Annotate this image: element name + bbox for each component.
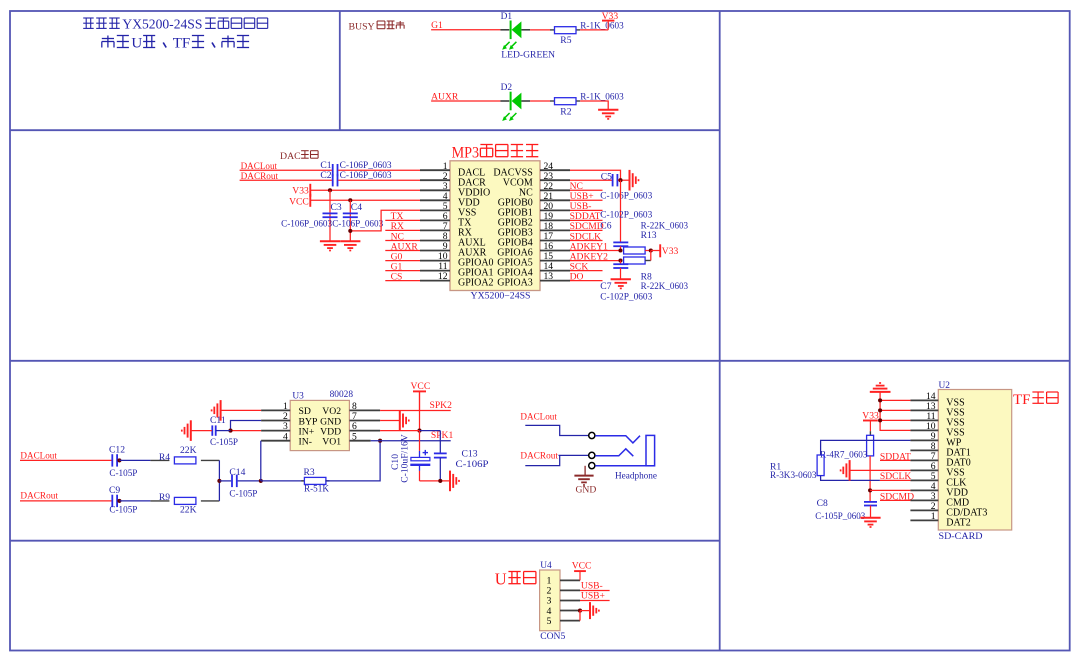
svg-text:C-105P: C-105P [210, 437, 238, 448]
junction USB pin4/pin5 ground [578, 609, 582, 613]
U1 pin 19 (GPIOB2) [498, 211, 570, 229]
resistor R9 [150, 492, 219, 515]
U1 pin 24 (DACVSS) [493, 161, 570, 179]
wire C3 to ground [329, 219, 331, 241]
wire GND pin7 to ground [380, 420, 400, 422]
svg-text:C-105P_0603: C-105P_0603 [815, 511, 865, 522]
ground (TF top, inverted) [870, 383, 891, 392]
capacitor C12 [109, 445, 137, 480]
capacitor C1 [320, 160, 391, 176]
wire R1 top to WP pin9 [821, 440, 911, 455]
U1 pin 9 (AUXR) [420, 241, 487, 259]
net label USB- (U1 pin 20) [570, 201, 603, 212]
divider vertical x=720 [719, 11, 721, 651]
ground (amp output, rotated right) [450, 471, 459, 492]
ground (C11, rotated left) [182, 420, 191, 441]
wire DACLout to C12 [20, 459, 112, 461]
svg-text:1: 1 [931, 511, 936, 522]
svg-text:C11: C11 [210, 415, 226, 426]
svg-text:12: 12 [438, 271, 448, 282]
wire VCOM pin23 to C5 [570, 179, 612, 181]
svg-text:R-22K_0603: R-22K_0603 [641, 220, 689, 231]
wire DACRout to C2 [240, 179, 332, 181]
wire bottom rail to ground [420, 480, 451, 482]
svg-text:DAT2: DAT2 [946, 518, 970, 529]
U1 pin 15 (GPIOA5) [497, 251, 570, 269]
net label G1 (U1 pin 11) [385, 261, 420, 272]
junction VDD/VCC [417, 429, 421, 433]
svg-text:C-105P: C-105P [229, 488, 257, 499]
wire VCC branch to C4 [349, 200, 351, 219]
svg-text:R-22K_0603: R-22K_0603 [641, 281, 689, 292]
resistor R-4R7 (TF VDD series) [820, 435, 874, 460]
wire D2 to R2 [530, 100, 550, 102]
U1 pin 5 (VSS) [420, 201, 476, 219]
svg-text:SPK1: SPK1 [431, 430, 454, 441]
net label DACRout (amp) [20, 491, 58, 502]
net label DACRout (headphone) [520, 451, 558, 462]
U2 pin 10 (VSS) [910, 421, 964, 439]
svg-text:R-51K: R-51K [304, 483, 329, 494]
wire DACVSS pin24 to C5 node [570, 170, 621, 180]
wire C9 to R9 [119, 500, 150, 502]
svg-text:C-106P_0603: C-106P_0603 [332, 219, 383, 230]
wire pin4 to ground [580, 610, 590, 612]
U2 pin 11 (VSS) [910, 411, 964, 429]
ground (U3 GND, rotated right) [400, 410, 409, 431]
svg-text:C-105P: C-105P [109, 505, 137, 516]
capacitor C4 [343, 202, 362, 217]
svg-text:SPK2: SPK2 [430, 400, 453, 411]
junction C12 out [117, 458, 121, 462]
wire C13 branch down [439, 431, 441, 453]
junction VSS pin14 [878, 398, 882, 402]
wire ADKEY2 down to C7 [620, 261, 622, 265]
net label DACLout (amp) [20, 451, 57, 462]
wire VCC to pin4 [310, 199, 420, 201]
ground (TF VSS pin6, rotated left) [841, 460, 850, 481]
wire C12 to R4 [119, 459, 150, 461]
junction VDD pin4/C8 [868, 488, 872, 492]
svg-text:R4: R4 [159, 452, 170, 463]
net label SPK1 [431, 430, 454, 441]
wire DACLout to C1 [240, 169, 332, 171]
ground (U3 SD pin, rotated left) [212, 400, 221, 421]
U4 pin 1 [547, 576, 580, 587]
U1 pin 14 (GPIOA4) [497, 261, 570, 279]
U1 pin 1 (DACL) [420, 161, 485, 179]
divider horizontal y=130 [10, 129, 720, 131]
net label SPK2 [430, 400, 453, 411]
power port VCC (USB) [572, 561, 592, 581]
wire C13 to bottom rail [439, 458, 441, 481]
wire VO1 to SPK1 [371, 440, 451, 442]
wire sleeve to GND [584, 466, 586, 476]
net label G0 (U1 pin 10) [385, 251, 420, 262]
svg-text:GPIOA3: GPIOA3 [497, 278, 533, 289]
net label AUXR (U1 pin 9) [385, 241, 420, 252]
svg-text:GND: GND [576, 484, 597, 495]
U3 pin 2 (BYP) [261, 411, 317, 427]
U2 pin 3 (CMD) [910, 491, 969, 509]
wire ground bus to VSS pins [880, 392, 910, 431]
U3 pin 1 (SD) [261, 401, 311, 417]
capacitor C6 [600, 210, 652, 247]
svg-text:MP3: MP3 [452, 145, 480, 162]
svg-text:DACRout: DACRout [20, 491, 58, 502]
U2 pin 1 (DAT2) [910, 511, 970, 529]
svg-text:C14: C14 [229, 467, 245, 478]
svg-text:SD-CARD: SD-CARD [939, 531, 983, 542]
net label SDDAT (U1 pin 19) [570, 211, 603, 222]
wire R9 to summing node [218, 481, 220, 501]
svg-text:IN-: IN- [299, 437, 312, 448]
junction VCC/C4 [348, 198, 352, 202]
U4 pin 4 [547, 606, 580, 617]
resistor R5 [550, 20, 624, 46]
capacitor C13 [434, 449, 489, 470]
wire VO2 to SPK2 [380, 410, 451, 412]
U2 pin 5 (CLK) [910, 471, 967, 489]
svg-text:YX5200-24SS: YX5200-24SS [122, 16, 202, 31]
ground (C7) [611, 279, 631, 288]
svg-text:VCC: VCC [572, 561, 592, 572]
svg-text:R13: R13 [641, 230, 657, 241]
net label G1 [431, 20, 443, 31]
headphone jack J1 contacts and body [595, 435, 654, 465]
svg-text:VCC: VCC [289, 196, 309, 207]
svg-text:C-10uF/16V: C-10uF/16V [400, 434, 411, 483]
ground (USB, rotated right) [590, 602, 599, 619]
svg-text:V33: V33 [602, 11, 619, 22]
net label SDCLK (U1 pin 17) [570, 231, 603, 242]
junction C5/DACVSS [618, 178, 622, 182]
wire junction to V33 bar [651, 250, 660, 252]
wire C11 to ground [191, 430, 212, 432]
wire C4 to ground [349, 219, 351, 241]
power port V33 (BUSY) [602, 11, 619, 30]
jack pin circle sleeve [589, 463, 595, 469]
wire V33 branch to C3 [329, 190, 331, 219]
svg-text:C9: C9 [109, 485, 120, 496]
label DAC output (DAC shu-chu) [280, 151, 318, 162]
jack pin circle ring [589, 452, 595, 458]
svg-text:5: 5 [547, 616, 552, 627]
net label NC (U1 pin 22) [570, 181, 603, 192]
power port V33 (ADKEY) [660, 244, 678, 257]
svg-text:C3: C3 [331, 202, 342, 213]
U1 pin 22 (NC) [519, 181, 570, 199]
U1 pin 11 (GPIOA1) [420, 261, 494, 279]
svg-text:D2: D2 [501, 83, 513, 93]
svg-text:C-106P_0603: C-106P_0603 [340, 170, 392, 181]
ground (C4) [340, 241, 360, 250]
IC U3 8002 amplifier body [290, 390, 353, 450]
net label DACRout (U1) [241, 171, 279, 182]
title line 2: zhi-chi U-pan TF-ka chuan-kou [102, 36, 249, 52]
section title TF ka-zuo (TF socket) [1013, 392, 1058, 408]
svg-text:R9: R9 [159, 492, 170, 503]
U1 pin 4 (VDD) [420, 191, 480, 209]
net label USB- (USB) [580, 580, 610, 591]
ground GND (headphone) [574, 476, 596, 496]
U1 pin 21 (GPIOB0) [498, 191, 570, 209]
ground (C3) [320, 241, 340, 250]
U1 pin 20 (GPIOB1) [498, 201, 570, 219]
U2 pin 2 (CD/DAT3) [910, 501, 987, 519]
net label SDCMD (TF) [880, 491, 914, 502]
capacitor C14 [229, 467, 257, 499]
resistor R13 [624, 220, 689, 254]
svg-text:U4: U4 [540, 561, 552, 571]
svg-text:22K: 22K [180, 445, 197, 456]
wire R13 to V33 node [645, 250, 651, 252]
wire VDD node to C13 branch [420, 430, 441, 432]
capacitor C10 electrolytic [390, 434, 430, 483]
net label TX (U1 pin 6) [385, 211, 420, 222]
capacitor C2 [320, 170, 391, 186]
U3 pin 3 (IN+) [261, 421, 314, 437]
svg-text:Headphone: Headphone [615, 470, 658, 481]
svg-text:R-4R7_0603: R-4R7_0603 [820, 449, 868, 460]
svg-text:R3: R3 [304, 467, 315, 478]
wire VCC node down to C10 [419, 431, 421, 451]
wire C10 to bottom rail [419, 471, 421, 481]
wire DACRout to jack ring [525, 455, 588, 465]
capacitor C11 [210, 415, 238, 448]
U1 pin 7 (RX) [420, 221, 473, 239]
svg-text:DAC: DAC [280, 151, 301, 162]
net label DO (U1 pin 13) [570, 271, 603, 282]
connector U2 SD-CARD body [938, 381, 1011, 542]
U1 pin 10 (GPIOA0) [420, 251, 494, 269]
wire node to C14 [219, 480, 231, 482]
ground (C5, rotated) [630, 170, 639, 191]
svg-text:C-106P: C-106P [456, 459, 489, 470]
LED D2 [500, 83, 530, 121]
wire BYP pin2 to C11 node [231, 421, 262, 431]
resistor R4 [150, 445, 219, 464]
U1 pin 2 (DACR) [420, 171, 486, 189]
junction ADKEY2/C7 [618, 258, 622, 262]
wire ground to SD pin1 [221, 409, 262, 411]
resistor R8 [624, 257, 689, 292]
connector U4 CON5 body [540, 561, 566, 642]
U1 pin 3 (VDDIO) [420, 181, 490, 199]
U3 pin 4 (IN-) [261, 431, 312, 447]
wire C5 to junction [618, 179, 630, 181]
svg-text:R-3K3-0603: R-3K3-0603 [770, 470, 817, 481]
wire DACRout to C9 [20, 500, 112, 502]
junction VO1/R3 [378, 439, 382, 443]
svg-text:BUSY: BUSY [349, 21, 375, 32]
wire C1 to pin1 [338, 169, 420, 171]
U1 pin 23 (VCOM) [503, 171, 570, 189]
svg-text:C-106P_0603: C-106P_0603 [281, 219, 332, 230]
U2 pin 6 (VSS) [910, 461, 964, 479]
svg-text:CON5: CON5 [540, 631, 565, 642]
svg-text:DACRout: DACRout [520, 451, 558, 462]
svg-text:YX5200−24SS: YX5200−24SS [471, 290, 531, 301]
resistor R2 [550, 91, 624, 117]
wire C5 node down to C6 [620, 180, 622, 242]
svg-text:LED-GREEN: LED-GREEN [501, 49, 555, 60]
wire R3 to VO1 feedback [325, 441, 380, 481]
wire R2 to ground [580, 101, 608, 110]
junction VSS/C4 ground [348, 229, 352, 233]
label Headphone [615, 470, 658, 481]
U1 pin 6 (TX) [420, 211, 472, 229]
net label SDCMD (U1 pin 18) [570, 221, 604, 232]
svg-text:V33: V33 [662, 246, 679, 257]
svg-text:C8: C8 [817, 498, 828, 509]
U1 pin 13 (GPIOA3) [497, 271, 570, 289]
U1 pin 8 (AUXL) [420, 231, 486, 249]
power port VCC (U1 VDD) [289, 194, 310, 208]
wire R4 to summing node [218, 460, 220, 481]
label LED-GREEN [501, 49, 555, 60]
svg-text:R2: R2 [560, 106, 571, 117]
U2 pin 9 (WP) [910, 431, 961, 449]
svg-text:C7: C7 [600, 281, 611, 292]
wire C2 to pin2 [338, 179, 420, 181]
capacitor C8 [815, 498, 877, 522]
ground (C8) [860, 518, 880, 527]
net label AUXR [431, 92, 459, 103]
wire VDD to VCC line [380, 430, 419, 432]
LED D1 [500, 12, 530, 50]
net label DACLout (headphone) [520, 411, 557, 422]
net label USB+ (USB) [580, 590, 610, 601]
wire AUXR to D2 [431, 100, 500, 102]
junction BYP/IN+/C11 [228, 429, 232, 433]
svg-text:U3: U3 [292, 391, 304, 401]
wire G1 to D1 [431, 29, 500, 31]
section title U-pan-zuo (USB socket) [495, 570, 536, 589]
U2 pin 4 (VDD) [910, 481, 968, 499]
net label RX (U1 pin 7) [385, 221, 420, 232]
value label C-106P_0603 (C4) [332, 219, 383, 230]
wire IN- node up to pin4 [260, 441, 262, 481]
U2 pin 14 (VSS) [910, 391, 964, 409]
capacitor C5 [600, 171, 652, 201]
wire DACLout to jack tip [525, 425, 588, 435]
U4 pin 5 [547, 616, 580, 627]
svg-text:4: 4 [283, 431, 288, 442]
svg-text:C2: C2 [320, 170, 331, 181]
label BUSY indicator (BUSY zhi-shi-deng) [349, 21, 405, 32]
svg-text:VO1: VO1 [322, 437, 341, 448]
junction VSS pin13 [878, 408, 882, 412]
net label CS (U1 pin 12) [385, 271, 420, 282]
svg-text:U: U [495, 570, 507, 589]
wire VDD node to pin4 [870, 489, 910, 491]
jack pin circle tip [589, 432, 595, 438]
power port V33 (TF) [862, 411, 879, 436]
net label SDCLK (TF) [880, 471, 912, 482]
power port V33 (U1 VDDIO) [292, 184, 310, 197]
U1 pin 16 (GPIOA6) [497, 241, 570, 259]
U3 pin 5 (VO1) [322, 431, 370, 447]
svg-text:DACLout: DACLout [520, 411, 557, 422]
net label ADKEY1 (U1 pin 16) [570, 241, 621, 252]
capacitor C3 [323, 202, 342, 217]
wire 4R7 to VDD node [869, 456, 871, 502]
svg-text:U: U [131, 36, 142, 52]
divider vertical title box x=340 [339, 11, 341, 130]
power port VCC (amp) [411, 381, 431, 410]
svg-text:C-106P_0603: C-106P_0603 [600, 190, 652, 201]
junction R13/R8/V33 [649, 248, 653, 252]
net label NC (U1 pin 8) [385, 231, 420, 242]
U2 pin 7 (DAT0) [910, 451, 970, 469]
wire pin5 to pin4 [579, 611, 581, 621]
U3 pin 8 (VO2) [322, 401, 380, 417]
capacitor C9 [109, 485, 137, 516]
U1 pin 12 (GPIOA2) [420, 271, 494, 289]
U2 pin 8 (DAT1) [910, 441, 970, 459]
wire R5 to V33 [580, 29, 608, 31]
net label ADKEY2 (U1 pin 15) [570, 251, 621, 262]
svg-text:U2: U2 [939, 381, 951, 391]
wire VSS pin5 to ground net [350, 210, 420, 231]
junction VSS pin11 [878, 418, 882, 422]
wire IN+ pin3 to C11 node [231, 430, 262, 432]
svg-text:C4: C4 [351, 202, 362, 213]
wire C8 to ground [870, 506, 872, 518]
value label C-106P_0603 (C3) [281, 219, 332, 230]
U4 pin 3 [547, 596, 580, 607]
svg-text:GPIOA2: GPIOA2 [458, 278, 494, 289]
svg-text:D1: D1 [501, 12, 513, 22]
U1 pin 18 (GPIOB3) [498, 221, 570, 239]
resistor R1 [770, 455, 824, 481]
wire C11 to BYP/IN+ node [216, 430, 231, 432]
wire R8 right to V33 node [645, 251, 651, 261]
section title MP3 main chip (MP3 zhu-kong-xin-pian) [452, 145, 539, 162]
svg-text:C-105P: C-105P [109, 468, 137, 479]
U2 pin 13 (VSS) [910, 401, 964, 419]
wire VCC down to VDD pin6 [419, 391, 421, 430]
svg-text:TF: TF [173, 36, 191, 52]
junction summing node [217, 479, 221, 483]
svg-text:TF: TF [1013, 392, 1031, 408]
svg-text:C-102P_0603: C-102P_0603 [600, 292, 652, 303]
svg-text:USB+: USB+ [581, 590, 605, 601]
wire C7 to ground [620, 268, 622, 279]
svg-text:13: 13 [544, 271, 554, 282]
junction ADKEY1/C6 [618, 248, 622, 252]
wire ground to VSS pin6 [850, 469, 911, 471]
ground (BUSY row 2) [598, 110, 618, 119]
svg-text:C-102P_0603: C-102P_0603 [600, 210, 652, 221]
svg-text:80028: 80028 [330, 390, 354, 400]
junction V33/C3 [328, 188, 332, 192]
wire V33 to pin3 [310, 189, 420, 191]
svg-text:V33: V33 [292, 185, 309, 196]
U3 pin 7 (GND) [320, 411, 380, 427]
wire node to R3 [261, 480, 305, 482]
junction C13/bottom rail [438, 479, 442, 483]
wire C6 to ADKEY1 [620, 246, 622, 250]
U1 pin 17 (GPIOB4) [498, 231, 570, 249]
capacitor C7 [600, 264, 652, 302]
divider horizontal y=541 [10, 540, 720, 542]
junction C14/IN-/R3 [259, 479, 263, 483]
wire D1 to R5 [530, 29, 550, 31]
svg-text:5: 5 [352, 431, 357, 442]
junction C9 out [117, 499, 121, 503]
